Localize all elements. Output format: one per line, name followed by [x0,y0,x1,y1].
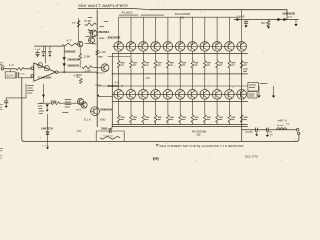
svg-text:2N6609: 2N6609 [100,108,113,111]
svg-text:8.1 K: 8.1 K [84,120,92,122]
svg-text:(8): (8) [197,133,201,136]
svg-text:+80 V: +80 V [277,121,288,123]
svg-text:2.2K: 2.2K [99,52,106,54]
svg-text:1.5K: 1.5K [85,70,92,72]
svg-text:0.47 Ω: 0.47 Ω [104,135,113,137]
svg-text:0.05: 0.05 [238,16,246,19]
svg-text:3.9K: 3.9K [84,57,92,59]
svg-text:0.05: 0.05 [246,132,254,134]
svg-text:2N5682: 2N5682 [65,50,77,53]
svg-text:1N4737A: 1N4737A [41,126,53,130]
svg-text:1 µF: 1 µF [35,49,42,51]
svg-text:(2): (2) [288,17,292,19]
svg-text:PL8SS: PL8SS [122,12,133,15]
svg-text:4 Ω: 4 Ω [115,83,120,85]
svg-text:2N3584: 2N3584 [108,35,122,39]
svg-text:8 µH: 8 µH [277,125,285,127]
svg-text:2N5415: 2N5415 [96,72,106,74]
svg-text:3.9K: 3.9K [95,85,102,87]
svg-text:IDLE CURRENT SET FOR 50 mA ACR: IDLE CURRENT SET FOR 50 mA ACROSS 7 1 Ω … [160,144,244,148]
svg-text:92CS- 27705: 92CS- 27705 [245,157,259,159]
svg-text:CA3100: CA3100 [38,75,52,79]
svg-text:200 µF: 200 µF [101,128,114,131]
svg-text:1N5828: 1N5828 [67,65,80,68]
svg-text:50 V: 50 V [261,23,269,25]
svg-text:8.1K: 8.1K [85,21,93,23]
svg-text:2N3584: 2N3584 [98,31,110,34]
svg-text:(a): (a) [153,156,159,160]
svg-text:NOTE: NOTE [76,109,82,111]
svg-text:10 K: 10 K [7,74,15,77]
svg-text:1N5828: 1N5828 [282,13,296,16]
svg-text:RCA9SB: RCA9SB [175,12,190,16]
svg-text:300 WATT AMPLIFIER: 300 WATT AMPLIFIER [78,4,129,8]
svg-text:1N5828: 1N5828 [67,58,80,61]
svg-text:1 K: 1 K [9,64,15,67]
